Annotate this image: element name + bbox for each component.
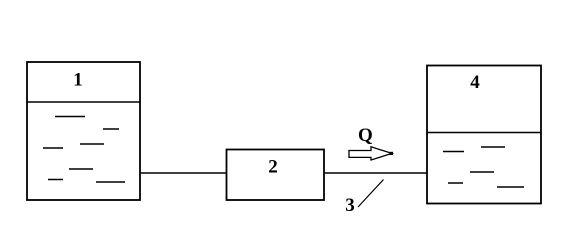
tank 1 liquid level line [27, 101, 140, 103]
svg-text:4: 4 [470, 72, 480, 93]
label 1 [73, 70, 83, 91]
label Q [358, 125, 373, 146]
wire tank1 to box2 [140, 172, 227, 174]
label 4 [470, 72, 480, 93]
svg-text:Q: Q [358, 125, 373, 146]
pump box 2 outline [227, 150, 325, 201]
label 2 [268, 157, 278, 178]
tank 4 (receiving reservoir outline) [427, 66, 541, 204]
tank 4 liquid dashes [443, 147, 524, 187]
flow arrow Q (block arrow) [349, 147, 393, 160]
leader slash for label 3 [358, 180, 384, 208]
tank 4 liquid level line [427, 132, 541, 134]
svg-text:3: 3 [345, 195, 355, 216]
wire box2 to tank4 (pipe 3) [324, 172, 427, 174]
tank 1 liquid dashes [43, 117, 125, 183]
svg-text:1: 1 [73, 70, 83, 91]
tank 1 (supply reservoir outline) [27, 62, 140, 200]
label 3 [345, 195, 355, 216]
svg-text:2: 2 [268, 157, 278, 178]
